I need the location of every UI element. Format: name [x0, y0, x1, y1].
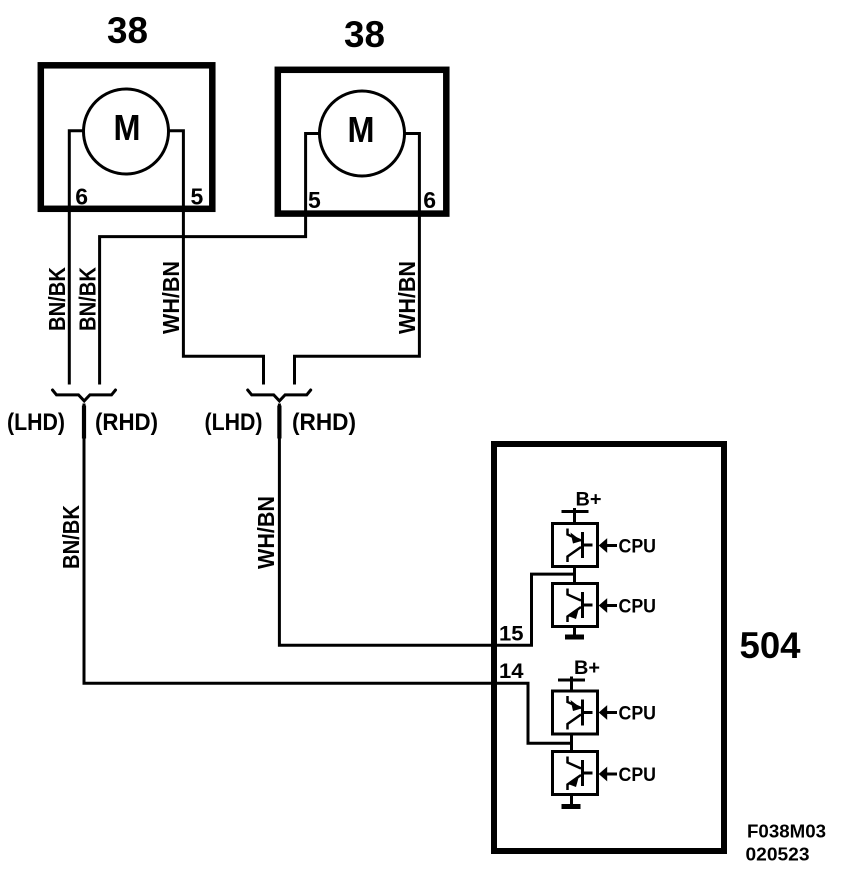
svg-text:(LHD): (LHD) [7, 409, 65, 436]
svg-text:WH/BN: WH/BN [158, 261, 184, 334]
svg-text:WH/BN: WH/BN [394, 261, 420, 334]
svg-text:CPU: CPU [619, 597, 657, 618]
svg-text:M: M [348, 109, 375, 150]
svg-text:14: 14 [499, 660, 524, 683]
svg-text:5: 5 [191, 183, 204, 209]
svg-text:15: 15 [499, 623, 524, 646]
svg-text:F038M03: F038M03 [747, 821, 826, 842]
svg-text:CPU: CPU [619, 765, 657, 786]
svg-text:BN/BK: BN/BK [75, 267, 101, 331]
svg-text:BN/BK: BN/BK [58, 505, 84, 569]
svg-text:WH/BN: WH/BN [253, 496, 279, 569]
svg-text:B+: B+ [576, 490, 602, 511]
svg-text:504: 504 [740, 625, 801, 666]
svg-text:CPU: CPU [619, 704, 657, 725]
svg-text:(RHD): (RHD) [95, 409, 158, 436]
svg-text:CPU: CPU [619, 537, 657, 558]
svg-text:6: 6 [423, 187, 436, 213]
svg-text:020523: 020523 [746, 844, 810, 865]
svg-text:38: 38 [107, 10, 148, 51]
svg-text:M: M [114, 107, 141, 148]
svg-text:(LHD): (LHD) [205, 409, 263, 436]
svg-text:38: 38 [344, 14, 385, 55]
svg-text:6: 6 [75, 183, 88, 209]
svg-text:B+: B+ [574, 658, 600, 679]
svg-text:(RHD): (RHD) [292, 409, 356, 436]
svg-text:BN/BK: BN/BK [44, 267, 70, 331]
svg-text:5: 5 [308, 187, 321, 213]
